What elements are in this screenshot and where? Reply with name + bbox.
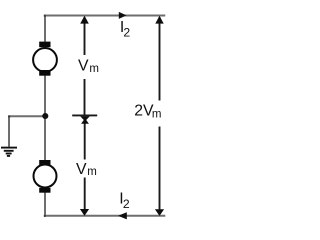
svg-text:V: V — [76, 161, 87, 178]
svg-text:m: m — [89, 63, 99, 75]
svg-text:m: m — [152, 109, 162, 121]
svg-text:2: 2 — [123, 197, 130, 211]
svg-text:V: V — [78, 57, 89, 74]
svg-text:2: 2 — [123, 25, 130, 39]
svg-text:m: m — [87, 166, 97, 178]
